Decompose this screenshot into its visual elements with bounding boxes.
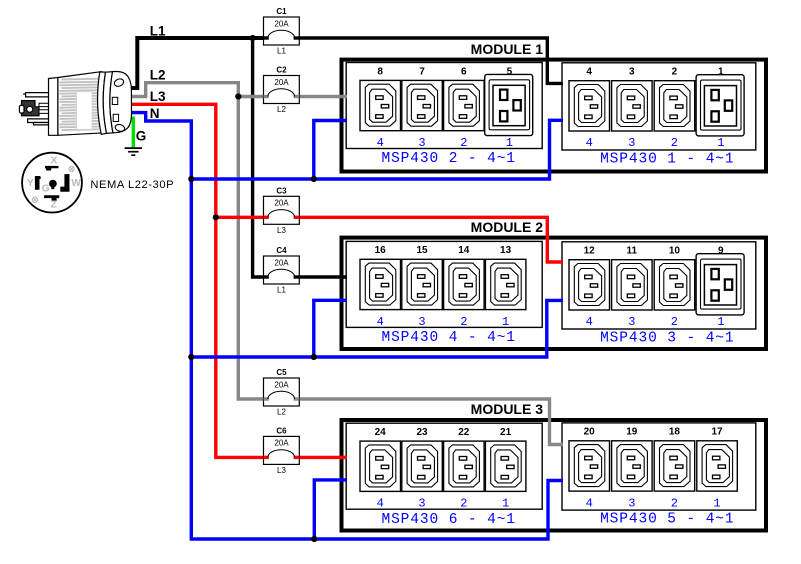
outlet 3 (IEC C13) — [612, 81, 653, 131]
svg-text:G: G — [136, 128, 147, 143]
svg-text:19: 19 — [626, 427, 638, 438]
svg-text:20A: 20A — [274, 258, 289, 267]
plug blade prong bottom — [28, 119, 49, 123]
wire L3 from plug trunk down to breaker C6 — [130, 104, 268, 457]
svg-text:20A: 20A — [274, 380, 289, 389]
svg-text:21: 21 — [500, 427, 512, 438]
svg-text:23: 23 — [416, 427, 428, 438]
circuit breaker C3 (L3) 20A — [264, 186, 300, 235]
collar notch lower — [113, 114, 118, 121]
wire N trunk from plug to module 3 right panel — [130, 113, 563, 539]
svg-text:MSP430 4 - 4~1: MSP430 4 - 4~1 — [381, 330, 515, 346]
outlet 7 (IEC C13) — [402, 80, 443, 130]
outlet 18 (IEC C13) — [654, 441, 695, 491]
svg-text:1: 1 — [502, 497, 509, 511]
svg-text:Y: Y — [27, 178, 34, 189]
svg-text:C6: C6 — [276, 426, 287, 435]
svg-text:MSP430 3 - 4~1: MSP430 3 - 4~1 — [600, 330, 734, 346]
outlet 20 (IEC C13) — [569, 441, 610, 491]
svg-text:18: 18 — [669, 427, 681, 438]
outlet 21 (IEC C13) — [485, 441, 526, 491]
wire L3 breaker C3 to module 2 right panel — [295, 217, 563, 262]
svg-text:6: 6 — [461, 66, 467, 77]
svg-text:3: 3 — [418, 497, 425, 511]
outlet 4 (IEC C13) — [569, 81, 610, 131]
svg-text:20A: 20A — [274, 78, 289, 87]
face slot Z (bottom) — [44, 195, 59, 201]
svg-text:W: W — [71, 178, 81, 189]
svg-text:2: 2 — [671, 315, 678, 329]
wire L1 from plug to breaker C1 — [129, 38, 268, 88]
wire L2 breaker C2 to module 1 left panel — [295, 95, 347, 98]
svg-text:1: 1 — [713, 496, 720, 510]
junction N tap module1 left — [311, 176, 317, 182]
plug blade prong top — [23, 93, 48, 97]
svg-text:20: 20 — [584, 427, 596, 438]
circuit breaker C1 (L1) 20A — [264, 7, 300, 56]
plug collar ring B — [103, 72, 113, 134]
wire G ground wire from plug — [132, 117, 135, 148]
outlet 2 (IEC C13) — [654, 81, 695, 131]
junction N tap module2 left — [311, 354, 317, 360]
outlet 16 (IEC C13) — [360, 259, 401, 309]
outlet 6 (IEC C13) — [444, 80, 485, 130]
svg-text:G: G — [42, 183, 50, 194]
svg-text:3: 3 — [628, 136, 635, 150]
plug collar ring A — [98, 72, 107, 134]
svg-text:12: 12 — [584, 246, 596, 257]
collar notch upper — [112, 97, 117, 104]
plug body middle band — [77, 92, 92, 130]
module sub-panel M2 right — [562, 242, 756, 329]
svg-text:3: 3 — [628, 315, 635, 329]
junction L3 tap — [213, 214, 219, 220]
svg-text:4: 4 — [377, 136, 384, 150]
svg-text:22: 22 — [458, 427, 470, 438]
svg-text:3: 3 — [418, 136, 425, 150]
circuit breaker C6 (L3) 20A — [264, 426, 300, 475]
svg-text:L1: L1 — [150, 23, 166, 38]
outlet 22 (IEC C13) — [444, 441, 485, 491]
svg-text:2: 2 — [671, 136, 678, 150]
wire L2 branch to breaker C2 — [238, 95, 267, 98]
connector face NEMA L22-30P — [22, 153, 82, 213]
wire L1 breaker C4 to module 2 left panel — [295, 275, 347, 278]
plug body ribs — [60, 79, 103, 130]
outlet 17 (IEC C13) — [697, 441, 738, 491]
face slot W (right) — [60, 174, 69, 192]
outlet 10 (IEC C13) — [654, 260, 695, 310]
cap screw hole top — [113, 78, 125, 88]
junction L1 tap — [250, 35, 256, 41]
svg-text:MODULE 2: MODULE 2 — [471, 219, 544, 235]
svg-text:4: 4 — [377, 315, 384, 329]
svg-text:20A: 20A — [274, 199, 289, 208]
svg-text:MODULE 3: MODULE 3 — [471, 401, 544, 417]
svg-text:2: 2 — [460, 136, 467, 150]
svg-text:L3: L3 — [277, 466, 286, 475]
circuit breaker C5 (L2) 20A — [264, 368, 300, 417]
svg-text:9: 9 — [718, 246, 724, 257]
svg-text:2: 2 — [672, 67, 678, 78]
module sub-panel M2 left — [346, 241, 542, 327]
outlet 14 (IEC C13) — [444, 259, 485, 309]
wire N branch to module 1 right panel — [191, 120, 563, 179]
outlet 11 (IEC C13) — [612, 260, 653, 310]
wire N branch to module 3 left panel — [314, 480, 347, 539]
svg-text:L3: L3 — [150, 89, 166, 104]
svg-text:X: X — [51, 155, 58, 166]
svg-text:20A: 20A — [274, 19, 289, 28]
svg-text:L2: L2 — [277, 408, 286, 417]
plug blade cluster — [22, 101, 40, 116]
svg-text:4: 4 — [377, 497, 384, 511]
face slot Y (left) — [35, 176, 41, 190]
junction N tap module3 left — [311, 536, 317, 542]
plug NEMA L22-30P illustration — [19, 72, 107, 136]
circuit breaker C2 (L2) 20A — [264, 66, 300, 115]
junction N tap module1 — [188, 176, 194, 182]
svg-text:MSP430 2 - 4~1: MSP430 2 - 4~1 — [381, 151, 515, 167]
svg-text:3: 3 — [629, 67, 635, 78]
plug cord cap — [110, 71, 132, 132]
outlet 15 (IEC C13) — [402, 259, 443, 309]
svg-text:N: N — [150, 106, 160, 121]
outlet 12 (IEC C13) — [569, 260, 610, 310]
svg-text:L3: L3 — [277, 226, 286, 235]
svg-text:1: 1 — [506, 136, 513, 150]
svg-text:L2: L2 — [150, 68, 166, 83]
face slot X (top) — [45, 166, 59, 171]
plug body — [58, 72, 108, 136]
outlet 5 (NEMA receptacle) — [485, 74, 533, 135]
face screw top-right — [69, 166, 74, 171]
wire N branch to module 2 right panel — [191, 300, 563, 357]
ground symbol — [125, 148, 142, 155]
svg-text:NEMA L22-30P: NEMA L22-30P — [90, 179, 174, 191]
svg-text:4: 4 — [586, 496, 593, 510]
plug side nub — [19, 105, 24, 113]
cap screw hole bottom — [114, 123, 125, 132]
svg-text:1: 1 — [718, 67, 724, 78]
outlet 23 (IEC C13) — [402, 441, 443, 491]
svg-text:14: 14 — [458, 245, 470, 256]
svg-text:C2: C2 — [276, 66, 287, 75]
svg-text:C5: C5 — [276, 368, 287, 377]
outlet 24 (IEC C13) — [360, 441, 401, 491]
module box MODULE 1 — [342, 60, 767, 172]
outlet 1 (NEMA receptacle) — [696, 75, 744, 136]
svg-text:11: 11 — [627, 246, 638, 257]
outlet 8 (IEC C13) — [360, 80, 401, 130]
svg-text:C4: C4 — [276, 246, 287, 255]
svg-text:MSP430 6 - 4~1: MSP430 6 - 4~1 — [381, 512, 515, 528]
svg-text:3: 3 — [628, 496, 635, 510]
svg-text:7: 7 — [419, 66, 425, 77]
module sub-panel M3 left — [346, 423, 542, 509]
svg-text:L1: L1 — [277, 47, 286, 56]
svg-text:L2: L2 — [277, 105, 286, 114]
plug base plate — [49, 78, 58, 136]
svg-text:2: 2 — [460, 497, 467, 511]
wire N branch to module 1 left panel — [314, 121, 347, 180]
svg-text:1: 1 — [717, 136, 724, 150]
wire L1 trunk down to breaker C4 — [253, 38, 268, 277]
svg-text:13: 13 — [500, 245, 512, 256]
svg-text:16: 16 — [375, 245, 387, 256]
wire L2 from plug trunk down to breaker C5 — [130, 83, 268, 399]
svg-text:8: 8 — [377, 66, 383, 77]
svg-text:4: 4 — [586, 67, 592, 78]
svg-text:20A: 20A — [274, 439, 289, 448]
module sub-panel M1 left — [346, 63, 542, 149]
face screw bottom-left — [32, 197, 37, 202]
module box MODULE 3 — [342, 420, 767, 531]
junction N tap module2 — [188, 354, 194, 360]
svg-text:MSP430 1 - 4~1: MSP430 1 - 4~1 — [600, 151, 734, 167]
svg-text:10: 10 — [669, 246, 681, 257]
wire L1 breaker C1 to module 1 right panel — [295, 38, 563, 83]
svg-text:17: 17 — [711, 427, 723, 438]
circuit breaker C4 (L1) 20A — [264, 246, 300, 295]
module box MODULE 2 — [342, 238, 767, 349]
module sub-panel M1 right — [562, 63, 756, 150]
svg-text:1: 1 — [717, 315, 724, 329]
svg-text:4: 4 — [586, 315, 593, 329]
svg-text:5: 5 — [507, 66, 513, 77]
svg-text:3: 3 — [418, 315, 425, 329]
svg-text:4: 4 — [586, 136, 593, 150]
svg-text:C1: C1 — [276, 7, 287, 16]
svg-text:C3: C3 — [276, 186, 287, 195]
svg-text:L1: L1 — [277, 286, 286, 295]
junction L2 tap — [235, 93, 241, 99]
svg-text:24: 24 — [375, 427, 387, 438]
wire N branch to module 2 left panel — [314, 300, 347, 357]
svg-text:2: 2 — [671, 496, 678, 510]
wire L2 breaker C5 to module 3 right panel — [295, 399, 563, 445]
svg-text:MODULE 1: MODULE 1 — [471, 41, 544, 57]
outlet 19 (IEC C13) — [612, 441, 653, 491]
wire L3 branch to breaker C3 — [216, 216, 268, 219]
outlet 9 (NEMA receptacle) — [696, 254, 744, 315]
svg-text:15: 15 — [416, 245, 428, 256]
svg-text:2: 2 — [460, 315, 467, 329]
module sub-panel M3 right — [562, 423, 756, 510]
svg-text:Z: Z — [51, 200, 57, 211]
face center pin G — [49, 180, 57, 188]
svg-text:MSP430 5 - 4~1: MSP430 5 - 4~1 — [600, 512, 734, 528]
outlet 13 (IEC C13) — [485, 259, 526, 309]
svg-text:1: 1 — [502, 315, 509, 329]
wire L3 breaker C6 to module 3 left panel — [295, 456, 347, 459]
